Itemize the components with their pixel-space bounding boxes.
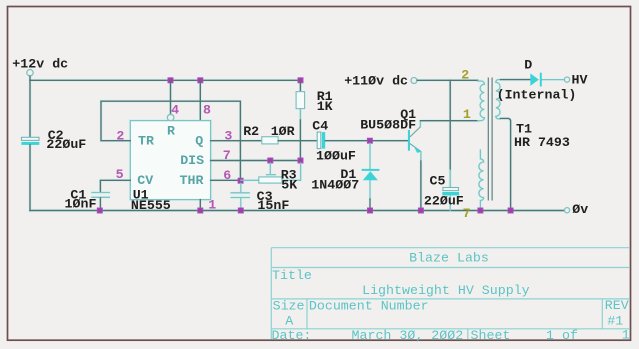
node +110v dc terminal (411, 78, 417, 84)
transistor Q1 (408, 121, 421, 161)
wire +12v top rail (30, 79, 301, 81)
svg-text:C4: C4 (312, 119, 328, 134)
svg-text:15nF: 15nF (257, 198, 289, 213)
junction DIS wiper (268, 158, 273, 163)
svg-text:1ØnF: 1ØnF (65, 197, 97, 212)
svg-text:March 3Ø, 2ØØ2: March 3Ø, 2ØØ2 (352, 328, 464, 343)
wire CV pin5 loop (100, 180, 130, 192)
svg-text:2: 2 (461, 67, 469, 82)
resistor R1 (296, 92, 305, 109)
svg-text:Date:: Date: (272, 328, 312, 343)
svg-text:8: 8 (203, 102, 211, 117)
svg-text:R2: R2 (243, 124, 259, 139)
transformer T1 primary upper winding (478, 81, 485, 121)
wire pin6 THR (211, 179, 241, 181)
node HV terminal (564, 77, 569, 82)
svg-text:Q: Q (195, 133, 203, 148)
svg-text:#1: #1 (607, 313, 623, 328)
svg-text:C5: C5 (430, 174, 446, 189)
svg-text:2: 2 (116, 129, 124, 144)
svg-text:R: R (167, 123, 175, 138)
junction pin8 top rail (198, 78, 203, 83)
capacitor C3 (231, 193, 249, 198)
svg-text:1 of: 1 of (546, 328, 578, 343)
svg-text:+12v dc: +12v dc (12, 57, 68, 72)
capacitor C2 (21, 137, 39, 145)
svg-text:7: 7 (223, 148, 231, 163)
svg-text:CV: CV (137, 173, 153, 188)
wire pin7 DIS (211, 160, 301, 162)
svg-text:5: 5 (116, 167, 124, 182)
svg-text:D: D (524, 58, 532, 73)
svg-text:1K: 1K (317, 99, 333, 114)
wire TR loop pin2 to THR (101, 101, 240, 178)
wire secondary bottom drop (501, 118, 511, 210)
svg-text:HV: HV (572, 72, 588, 87)
node 0v terminal (564, 208, 569, 213)
resistor R3 trimmer (241, 163, 301, 183)
capacitor C4 (317, 132, 325, 149)
svg-text:THR: THR (180, 173, 204, 188)
junction C3 ground (238, 208, 243, 213)
svg-text:HR 7493: HR 7493 (514, 135, 570, 150)
wire C5 to ground (449, 196, 451, 211)
svg-text:+11Øv dc: +11Øv dc (344, 74, 408, 89)
svg-text:1: 1 (622, 327, 630, 342)
svg-text:1N4ØØ7: 1N4ØØ7 (311, 177, 359, 192)
wire C2 branch down (29, 80, 31, 137)
svg-text:6: 6 (223, 168, 231, 183)
junction secondary ground (508, 208, 513, 213)
svg-text:REV: REV (605, 298, 629, 313)
svg-text:Sheet: Sheet (471, 328, 511, 343)
transformer T1 core (488, 78, 492, 201)
wire D1 to ground (369, 180, 371, 210)
wire +110v to transformer (417, 79, 478, 81)
junction D1 ground (367, 208, 372, 213)
wire pin4 drop (170, 82, 172, 114)
svg-text:22ØuF: 22ØuF (424, 194, 464, 209)
svg-text:4: 4 (171, 102, 179, 117)
svg-text:A: A (285, 314, 293, 329)
svg-text:1: 1 (208, 197, 216, 212)
svg-text:Size: Size (273, 299, 305, 314)
wire pin1 to ground (199, 200, 201, 211)
resistor R2 (262, 137, 278, 144)
wire +110v drop to C5 (449, 80, 451, 187)
wire diode D to HV (542, 79, 564, 81)
svg-text:Document Number: Document Number (309, 299, 429, 314)
wire ground bottom rail (30, 210, 564, 212)
wire Q1 collector tap1 (420, 120, 478, 122)
op-amp U1 NE555 box (130, 121, 210, 200)
junction pin1 ground (198, 208, 203, 213)
diode D1 (362, 170, 380, 180)
junction THR (238, 178, 243, 183)
svg-text:3: 3 (224, 128, 232, 143)
diode D (530, 73, 541, 87)
wire R2 to C4 (278, 140, 317, 142)
junction T1 pin7 ground (478, 208, 483, 213)
wire secondary top to diode D (501, 79, 531, 81)
svg-text:BU5Ø8DF: BU5Ø8DF (360, 118, 416, 133)
svg-text:(Internal): (Internal) (497, 88, 577, 103)
junction C1 ground (97, 208, 102, 213)
wire pin8 drop (199, 82, 201, 121)
wire C3 to ground (240, 198, 242, 210)
junction D1 base node (367, 138, 372, 143)
svg-text:NE555: NE555 (131, 198, 171, 213)
svg-text:1ØR: 1ØR (271, 124, 295, 139)
wire pin3 Q output (211, 140, 262, 142)
wire R1 drop to DIS (299, 82, 301, 161)
svg-text:5K: 5K (281, 178, 297, 193)
wire C1 to ground (99, 198, 101, 211)
capacitor C1 (92, 193, 109, 198)
svg-text:Lightweight HV Supply: Lightweight HV Supply (362, 283, 530, 298)
svg-text:Title: Title (272, 268, 312, 283)
wire Q1 emitter to ground (420, 161, 422, 211)
transformer T1 feedback winding (479, 150, 484, 211)
junction DIS R1 (298, 158, 303, 163)
title block grid (271, 248, 630, 340)
svg-text:22ØuF: 22ØuF (46, 137, 86, 152)
svg-text:TR: TR (138, 133, 154, 148)
svg-text:1: 1 (463, 107, 471, 122)
wire D1 drop (369, 143, 371, 169)
pin 4 reset bubble (167, 114, 174, 121)
svg-text:Øv: Øv (572, 202, 588, 217)
wire C2 to ground rail (29, 145, 31, 211)
svg-text:DIS: DIS (180, 153, 204, 168)
svg-text:Blaze Labs: Blaze Labs (409, 250, 489, 265)
junction pin4 top rail (168, 78, 173, 83)
node +12v dc terminal (27, 70, 33, 81)
wire glow underlay (30, 76, 564, 210)
transformer T1 secondary winding (496, 80, 501, 119)
capacitor C5 (442, 188, 459, 196)
wire C3 THR drop (240, 183, 242, 192)
junction R1 top rail (298, 78, 303, 83)
junction Q1 emitter ground (418, 208, 423, 213)
wire C4 to Q1 base (325, 140, 407, 142)
svg-text:1ØØuF: 1ØØuF (316, 148, 356, 163)
